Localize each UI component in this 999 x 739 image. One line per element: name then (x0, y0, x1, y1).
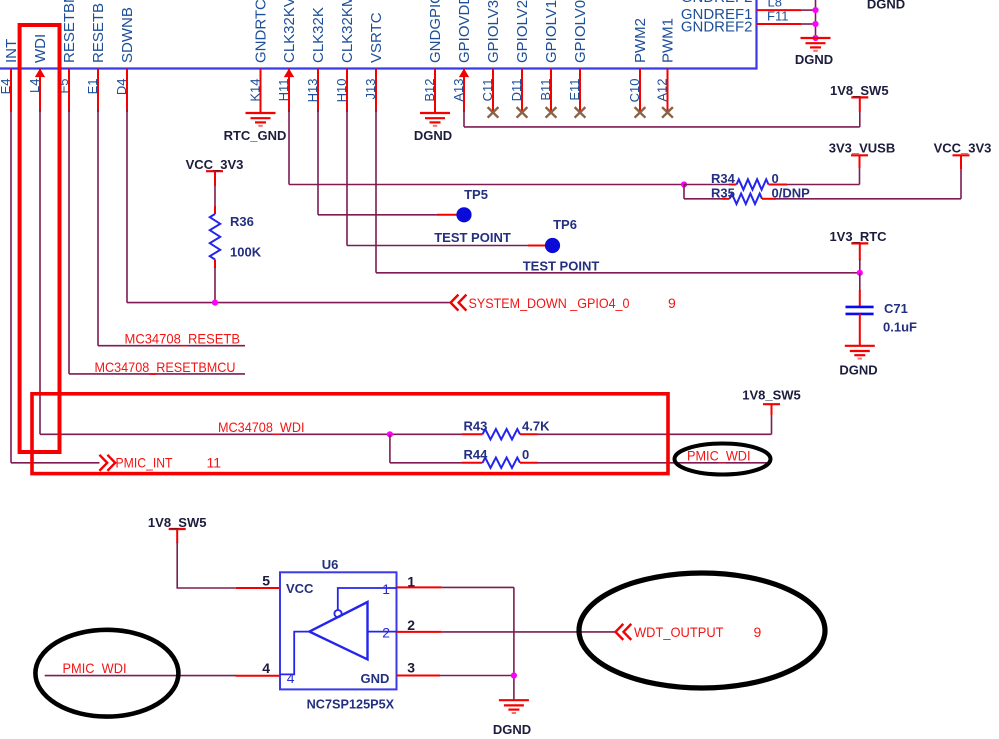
wire GNDREF2 to ground bus (801, 23, 816, 25)
svg-text:TP6: TP6 (553, 217, 577, 232)
wire VSRTC to C71 (376, 272, 860, 274)
wire pin3 to ground bus (440, 675, 514, 677)
buffer U6 input wire (280, 632, 309, 675)
svg-text:C71: C71 (884, 301, 908, 316)
resistor R34 right stub (769, 184, 788, 186)
pin 1 stub U6 (397, 586, 442, 588)
svg-text:WDT_OUTPUT: WDT_OUTPUT (634, 624, 724, 640)
wire 1V8_SW5 stub bottom (176, 529, 178, 543)
pin stub K14 (260, 69, 262, 114)
svg-text:R35: R35 (711, 186, 735, 201)
net label WDT_OUTPUT chevrons (616, 624, 632, 640)
resistor R35 (730, 194, 763, 204)
node junction R43/R44 (387, 431, 393, 437)
wire 3V3_VUSB vertical (859, 167, 861, 185)
wire 1V3_RTC stub (859, 243, 861, 260)
buffer U6 box (280, 572, 397, 689)
power 1V8_SW5 mid (742, 387, 801, 404)
svg-text:2: 2 (382, 625, 390, 641)
svg-text:GPIOLV3: GPIOLV3 (485, 0, 502, 63)
no-connect X on D11 (517, 107, 528, 118)
wire ground bus vertical U6 (513, 587, 515, 700)
wire R44 to PMIC_WDI (538, 462, 771, 464)
wire SYSTEM_DOWN horizontal (127, 302, 451, 304)
svg-text:VCC: VCC (286, 581, 314, 596)
svg-text:TEST POINT: TEST POINT (434, 230, 511, 245)
svg-text:4: 4 (262, 660, 270, 676)
highlight rectangle around WDI pin (20, 25, 60, 452)
svg-text:1V3_RTC: 1V3_RTC (829, 229, 887, 244)
wire RESETB vertical (97, 110, 99, 346)
capacitor C71 top lead (859, 290, 861, 306)
svg-text:2: 2 (407, 617, 415, 633)
resistor R35 left stub (722, 198, 730, 200)
wire pin2 to WDT_OUTPUT (442, 631, 616, 633)
pin stub F5 (68, 69, 70, 113)
pin stub D4 (126, 69, 128, 113)
svg-text:100K: 100K (230, 245, 262, 260)
wire R43/R44 branch vertical (389, 434, 391, 463)
input arrow on A13 (459, 69, 469, 78)
wire MC34708_RESETB horizontal (98, 345, 245, 347)
power 1V8_SW5 bottom (148, 515, 207, 530)
svg-text:TP5: TP5 (464, 187, 488, 202)
net label SYSTEM_DOWN chevrons (451, 295, 467, 311)
svg-text:PWM1: PWM1 (660, 18, 677, 63)
wire 1V8_SW5 mid vertical (771, 414, 773, 434)
node junction F11 (812, 21, 818, 27)
svg-text:R43: R43 (464, 419, 488, 434)
wire R35 left (684, 198, 722, 200)
svg-text:MC34708_WDI: MC34708_WDI (218, 419, 305, 435)
test point TP5 (456, 207, 471, 222)
wire pin1 to ground bus (442, 586, 514, 588)
svg-text:PWM2: PWM2 (632, 18, 649, 63)
power 1V3_RTC (829, 229, 887, 244)
wire VCC_3V3 vertical (960, 168, 962, 199)
pin 5 stub U6 (236, 587, 280, 589)
highlight ellipse WDT_OUTPUT (579, 573, 825, 688)
svg-text:CLK32KVCC: CLK32KVCC (281, 0, 298, 63)
svg-text:1: 1 (382, 581, 390, 597)
svg-text:3V3_VUSB: 3V3_VUSB (829, 140, 895, 155)
wire R43 to 1V8_SW5 (538, 433, 772, 435)
buffer U6 triangle (309, 602, 367, 659)
svg-text:GNDREF2: GNDREF2 (681, 19, 753, 36)
svg-text:DGND: DGND (795, 52, 833, 67)
pin stub E4 (10, 69, 12, 113)
svg-text:SDWNB: SDWNB (119, 7, 136, 63)
wire GPIOVDD vertical (463, 110, 465, 127)
pin stub C11 (492, 69, 494, 113)
wire WDI vertical (39, 110, 41, 434)
resistor R36 top stub (214, 206, 216, 214)
wire RESETBMCU vertical (68, 110, 70, 374)
ground DGND at bus (801, 38, 831, 51)
net label PMIC_INT chevrons (99, 455, 115, 471)
pin stub L4 (39, 69, 41, 113)
highlight ellipse PMIC_WDI bottom (35, 630, 178, 717)
wire R44 left (390, 462, 462, 464)
highlight rectangle around WDI nets (32, 394, 668, 474)
pin 2 stub U6 (397, 631, 442, 633)
svg-text:0: 0 (522, 447, 529, 462)
wire VCC_3V3 red stub (960, 155, 962, 169)
wire MC34708_WDI horizontal (40, 433, 462, 435)
svg-text:1V8_SW5: 1V8_SW5 (830, 83, 889, 98)
resistor R43 left stub (462, 433, 483, 435)
ground DGND under U6 (499, 700, 529, 713)
wire 1V3_RTC to junction (859, 259, 861, 273)
svg-text:1V8_SW5: 1V8_SW5 (742, 387, 801, 402)
pin stub B12 (434, 69, 436, 114)
no-connect X on A12 (662, 107, 673, 118)
svg-text:GPIOLV1: GPIOLV1 (543, 0, 560, 63)
wire TP6 red stub (528, 245, 545, 247)
no-connect X on B11 (546, 107, 557, 118)
pin stub B11 (550, 69, 552, 113)
svg-text:TEST POINT: TEST POINT (523, 258, 600, 273)
svg-text:9: 9 (668, 295, 676, 311)
svg-text:5: 5 (262, 573, 270, 589)
wire R34 to 3V3_VUSB (787, 184, 860, 186)
wire MC34708_RESETBMCU horizontal (69, 373, 245, 375)
pin 4 stub U6 (236, 675, 280, 677)
wire VSRTC vertical (375, 110, 377, 273)
svg-text:R34: R34 (711, 171, 736, 186)
wire 1V8_SW5 red stub (859, 97, 861, 112)
wire VCC_3V3 to R36 (214, 186, 216, 207)
svg-text:NC7SP125P5X: NC7SP125P5X (307, 697, 395, 712)
pin stub H10 (346, 69, 348, 113)
wire 1V8_SW5 to pin5 (177, 542, 236, 588)
svg-text:VCC_3V3: VCC_3V3 (186, 157, 244, 172)
svg-text:DGND: DGND (867, 0, 905, 12)
no-connect X on C11 (488, 107, 499, 118)
svg-text:GPIOVDD: GPIOVDD (456, 0, 473, 63)
buffer U6 enable wire (338, 588, 397, 610)
svg-text:U6: U6 (322, 557, 339, 572)
svg-text:GNDGPIO: GNDGPIO (427, 0, 444, 63)
svg-text:9: 9 (754, 624, 762, 640)
wire H13 vertical (317, 110, 319, 215)
svg-text:MC34708_RESETB: MC34708_RESETB (125, 331, 241, 347)
IC U5 PMIC MC34708 outline (bottom/right edges of large IC) (0, 0, 757, 69)
wire R35 to VCC_3V3 (776, 198, 961, 200)
wire GPIOVDD to 1V8_SW5 (464, 126, 860, 128)
pin stub A13 (463, 69, 465, 113)
no-connect X on E11 (575, 107, 586, 118)
power 3V3_VUSB (829, 140, 895, 155)
svg-text:PMIC_WDI: PMIC_WDI (687, 447, 751, 463)
svg-text:DGND: DGND (414, 128, 452, 143)
svg-text:VSRTC: VSRTC (368, 12, 385, 63)
pin stub H11 (288, 69, 290, 113)
ground DGND under C71 (845, 346, 875, 359)
resistor R43 (483, 429, 521, 439)
svg-text:0.1uF: 0.1uF (883, 320, 917, 335)
buffer U6 enable bubble (334, 610, 341, 617)
svg-text:RESETBMCU: RESETBMCU (61, 0, 78, 63)
pin stub E11 (579, 69, 581, 113)
pin stub E1 (97, 69, 99, 113)
wire junction to R35 row (683, 185, 685, 199)
wire to R34 junction (289, 184, 684, 186)
capacitor C71 bottom lead (859, 314, 861, 346)
wire TP5 red stub (437, 214, 457, 216)
pin stub C10 (639, 69, 641, 113)
test point TP6 (545, 238, 560, 253)
svg-text:MC34708_RESETBMCU: MC34708_RESETBMCU (95, 359, 236, 375)
resistor R36 (210, 214, 220, 260)
svg-text:R44: R44 (464, 447, 489, 462)
svg-text:4: 4 (287, 670, 295, 686)
ground DGND under B12 (420, 113, 450, 126)
svg-text:WDI: WDI (32, 34, 49, 63)
svg-text:RTC_GND: RTC_GND (224, 128, 287, 143)
svg-text:11: 11 (207, 455, 222, 471)
wire VCC_3V3 stub (214, 171, 216, 186)
svg-text:DGND: DGND (493, 722, 531, 737)
wire SDWNB vertical (126, 110, 128, 303)
pin stub J13 (375, 69, 377, 113)
power VCC_3V3 right (934, 140, 992, 155)
node junction L8 (812, 7, 818, 13)
buffer U6 output wire (368, 631, 397, 633)
capacitor C71 plates (846, 307, 874, 314)
resistor R34 (737, 179, 769, 189)
svg-text:4.7K: 4.7K (522, 419, 550, 434)
svg-text:SYSTEM_DOWN _GPIO4_0: SYSTEM_DOWN _GPIO4_0 (469, 295, 630, 311)
svg-text:0: 0 (772, 171, 779, 186)
node junction R34/R35 (681, 181, 687, 187)
wire ground bus vertical (815, 0, 817, 38)
svg-text:PMIC_WDI: PMIC_WDI (63, 660, 127, 676)
wire R36 to SYSTEM_DOWN net (214, 267, 216, 303)
ground RTC_GND (246, 113, 276, 126)
svg-text:RESETB: RESETB (90, 3, 107, 63)
resistor R34 left stub (729, 184, 737, 186)
node junction R36/SDWNB (212, 300, 218, 306)
wire 1V8_SW5 mid stub (771, 405, 773, 416)
wire R34 left (684, 184, 729, 186)
wire 3V3_VUSB red stub (859, 155, 861, 168)
pin stub D11 (521, 69, 523, 113)
node junction 1V3_RTC/C71 (857, 270, 863, 276)
svg-text:CLK32K: CLK32K (310, 7, 327, 63)
wire INT red stub lower (10, 69, 12, 112)
wire GNDREF1 to ground bus (801, 9, 816, 11)
resistor R43 right stub (520, 433, 538, 435)
svg-text:DGND: DGND (839, 363, 877, 378)
wire junction to C71 (859, 273, 861, 291)
pin 3 stub U6 (397, 675, 441, 677)
power VCC_3V3 (186, 157, 244, 172)
svg-text:R36: R36 (230, 214, 254, 229)
pin stub GNDREF2 (757, 23, 802, 25)
wire to TP5 (318, 214, 437, 216)
wire H10 vertical (346, 110, 348, 246)
pin stub A12 (667, 69, 669, 113)
svg-text:GPIOLV0: GPIOLV0 (572, 0, 589, 63)
svg-text:GNDRTC: GNDRTC (253, 0, 270, 63)
highlight ellipse PMIC_WDI top (675, 444, 771, 475)
svg-text:GPIOLV2: GPIOLV2 (514, 0, 531, 63)
pin stub GNDREF1 (757, 9, 802, 11)
pin stub H13 (317, 69, 319, 113)
svg-text:CLK32KMCU: CLK32KMCU (339, 0, 356, 63)
resistor R44 right stub (520, 462, 538, 464)
node junction gnd (812, 35, 818, 41)
wire 1V8_SW5 vertical (859, 111, 861, 127)
input arrow on H11 (284, 69, 294, 78)
resistor R35 right stub (762, 198, 776, 200)
resistor R44 (483, 458, 521, 468)
resistor R44 left stub (462, 462, 483, 464)
wire to TP6 (347, 245, 528, 247)
node junction pin3/ground (511, 672, 517, 678)
wire PMIC_INT horizontal (11, 462, 99, 464)
no-connect X on C10 (635, 107, 646, 118)
wire INT vertical (10, 110, 12, 463)
svg-text:1V8_SW5: 1V8_SW5 (148, 515, 207, 530)
svg-text:VCC_3V3: VCC_3V3 (934, 140, 992, 155)
wire PMIC_WDI to pin4 (45, 675, 237, 677)
svg-text:3: 3 (407, 660, 415, 676)
power 1V8_SW5 top (830, 83, 889, 98)
svg-text:GND: GND (361, 671, 390, 686)
input arrow on L4 (35, 69, 45, 78)
resistor R36 bottom stub (214, 260, 216, 269)
svg-text:PMIC_INT: PMIC_INT (116, 455, 173, 471)
wire CLK32KVCC vertical (288, 110, 290, 185)
